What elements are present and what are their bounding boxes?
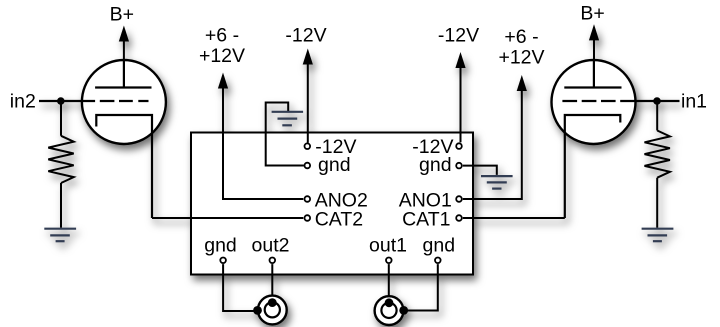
triode V2 grid (dashed) + in2 wire xyxy=(39,100,149,102)
pin gnd right xyxy=(456,163,462,169)
pin ANO2 xyxy=(305,196,311,202)
jack J1 sleeve dot xyxy=(399,306,408,315)
jack J2 tip dot xyxy=(268,298,277,307)
wire B+ right shaft xyxy=(593,39,595,88)
node in2 junction dot xyxy=(57,97,65,105)
wire gnd pin right to ground symbol xyxy=(463,166,497,175)
jack J2 inner xyxy=(265,302,280,317)
arrow B+ right xyxy=(589,24,599,40)
ground right of module xyxy=(481,176,513,189)
pin -12V left xyxy=(305,143,311,149)
wire R2 to ground xyxy=(60,183,62,228)
arrow -12V left xyxy=(303,49,313,65)
svg-text:CAT1: CAT1 xyxy=(402,208,450,230)
wire out2 to jack J2 xyxy=(271,264,273,301)
arrow -12V right xyxy=(455,52,465,68)
pin gnd bottom-left xyxy=(220,258,226,264)
svg-text:-12V: -12V xyxy=(438,24,479,46)
wire cathode V1 to CAT1 xyxy=(463,217,565,219)
wire out1 to jack J1 xyxy=(388,264,390,301)
arrow +6-+12V left xyxy=(218,73,228,89)
wire -12V right shaft xyxy=(460,68,462,142)
pin CAT2 xyxy=(305,215,311,221)
svg-text:gnd: gnd xyxy=(419,154,452,176)
svg-text:out1: out1 xyxy=(369,234,407,256)
triode V2 envelope xyxy=(82,60,166,144)
triode V1 envelope xyxy=(552,60,636,144)
svg-text:out2: out2 xyxy=(252,234,290,256)
triode V2 plate xyxy=(95,60,151,88)
svg-text:gnd: gnd xyxy=(318,154,351,176)
wire cathode V2 to CAT2 xyxy=(152,217,303,219)
jack J1 outer xyxy=(375,296,404,325)
jack J1 inner xyxy=(381,303,396,318)
resistor R1 xyxy=(645,131,670,178)
svg-text:B+: B+ xyxy=(580,3,604,25)
arrow +6-+12V right xyxy=(517,75,527,91)
svg-text:in1: in1 xyxy=(681,90,707,112)
ground left (below R2) xyxy=(44,229,76,242)
pin out1 xyxy=(386,258,392,264)
pin CAT1 xyxy=(456,215,462,221)
pin ANO1 xyxy=(456,196,462,202)
svg-text:+6 -: +6 - xyxy=(504,26,538,48)
svg-text:B+: B+ xyxy=(110,3,134,25)
pin out2 xyxy=(270,258,276,264)
triode V1 grid (dashed) + in1 wire xyxy=(562,100,679,102)
ground right (below R1) xyxy=(642,229,674,242)
ground near top middle xyxy=(272,112,304,126)
wire gnd bottom-right to jack J1 xyxy=(407,264,438,310)
svg-text:+12V: +12V xyxy=(498,46,544,68)
resistor R2 xyxy=(48,136,73,183)
wire -12V left shaft xyxy=(307,65,309,143)
wire B+ left shaft xyxy=(123,40,125,88)
wire +6-+12V right shaft to ANO1 xyxy=(463,91,522,199)
pin gnd bottom-right xyxy=(435,258,441,264)
triode V1 plate xyxy=(564,60,621,88)
svg-text:CAT2: CAT2 xyxy=(315,208,363,230)
node in1 junction dot xyxy=(653,97,661,105)
jack J2 outer xyxy=(258,296,287,325)
wire R1 to ground xyxy=(656,178,658,228)
jack J1 tip dot xyxy=(385,298,394,307)
svg-text:in2: in2 xyxy=(10,90,36,112)
svg-text:+12V: +12V xyxy=(199,45,245,67)
triode V1 cathode xyxy=(565,115,621,218)
triode V2 cathode xyxy=(96,115,152,218)
svg-text:+6 -: +6 - xyxy=(205,24,239,46)
svg-text:gnd: gnd xyxy=(423,234,456,256)
svg-text:gnd: gnd xyxy=(204,234,237,256)
wire gnd pin left to ground symbol xyxy=(266,103,304,166)
wire in1 to resistor R1 xyxy=(656,101,658,131)
wire +6-+12V left shaft to ANO2 xyxy=(223,89,303,200)
wire in2 to resistor R2 xyxy=(60,101,62,136)
svg-text:-12V: -12V xyxy=(285,24,326,46)
jack J2 sleeve dot xyxy=(253,306,262,315)
pin -12V right xyxy=(456,143,462,149)
wire gnd bottom-left to jack J2 xyxy=(223,264,254,311)
pin gnd left xyxy=(305,163,311,169)
module block U1 xyxy=(191,133,473,275)
arrow B+ left xyxy=(119,26,129,42)
